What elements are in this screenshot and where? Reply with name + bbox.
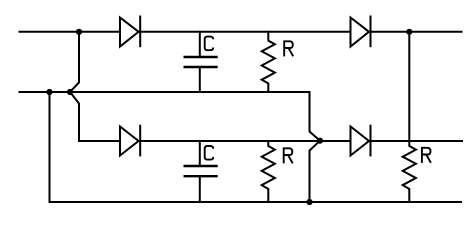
- wire vertical from W1 right junction down through W3: [408, 32, 410, 141]
- label R of resistor R1: [284, 41, 293, 56]
- resistor R3: [403, 141, 416, 202]
- wire vertical from W1 junction down to node A: [70, 32, 79, 92]
- wire W3 lower bus (right segment): [371, 140, 463, 142]
- node B junction dot: [317, 138, 323, 144]
- wire from node B down to bottom bus W4: [310, 141, 321, 202]
- capacitor C1 bottom lead: [199, 67, 201, 92]
- junction dot on W2 at x=49.5: [46, 89, 52, 95]
- junction dot on W4: [306, 199, 312, 205]
- wire W4 bottom bus: [50, 201, 462, 203]
- diode D1: [120, 17, 140, 47]
- node A junction dot: [67, 89, 73, 95]
- label C of capacitor C2: [205, 146, 214, 160]
- capacitor C2 bottom lead: [199, 176, 201, 202]
- wire from node A down to lower bus W3: [70, 92, 120, 141]
- resistor R2: [262, 141, 275, 202]
- junction dot on W1 left: [76, 29, 82, 35]
- capacitor C2 plates: [185, 166, 217, 176]
- label C of capacitor C1: [205, 37, 214, 51]
- label R of resistor R3: [422, 148, 431, 163]
- wire W1 top bus (left segment): [20, 31, 121, 33]
- capacitor C2 top lead: [199, 141, 201, 166]
- label R of resistor R2: [284, 148, 293, 163]
- diode D4: [351, 126, 371, 156]
- wire W3 lower bus (middle segment): [140, 140, 350, 142]
- capacitor C1 plates: [185, 57, 217, 67]
- wire from W2 corner down to node B: [310, 92, 321, 141]
- wire W1 top bus (middle segment): [140, 31, 350, 33]
- wire W1 top bus (right segment): [371, 31, 462, 33]
- wire W2 middle bus: [20, 91, 310, 93]
- resistor R1: [262, 32, 275, 92]
- diode D2: [120, 126, 140, 156]
- capacitor C1 top lead: [199, 32, 201, 57]
- diode D3: [351, 17, 371, 47]
- wire vertical drop from W2 junction to bottom bus: [49, 92, 51, 202]
- junction dot on W1 right: [406, 29, 412, 35]
